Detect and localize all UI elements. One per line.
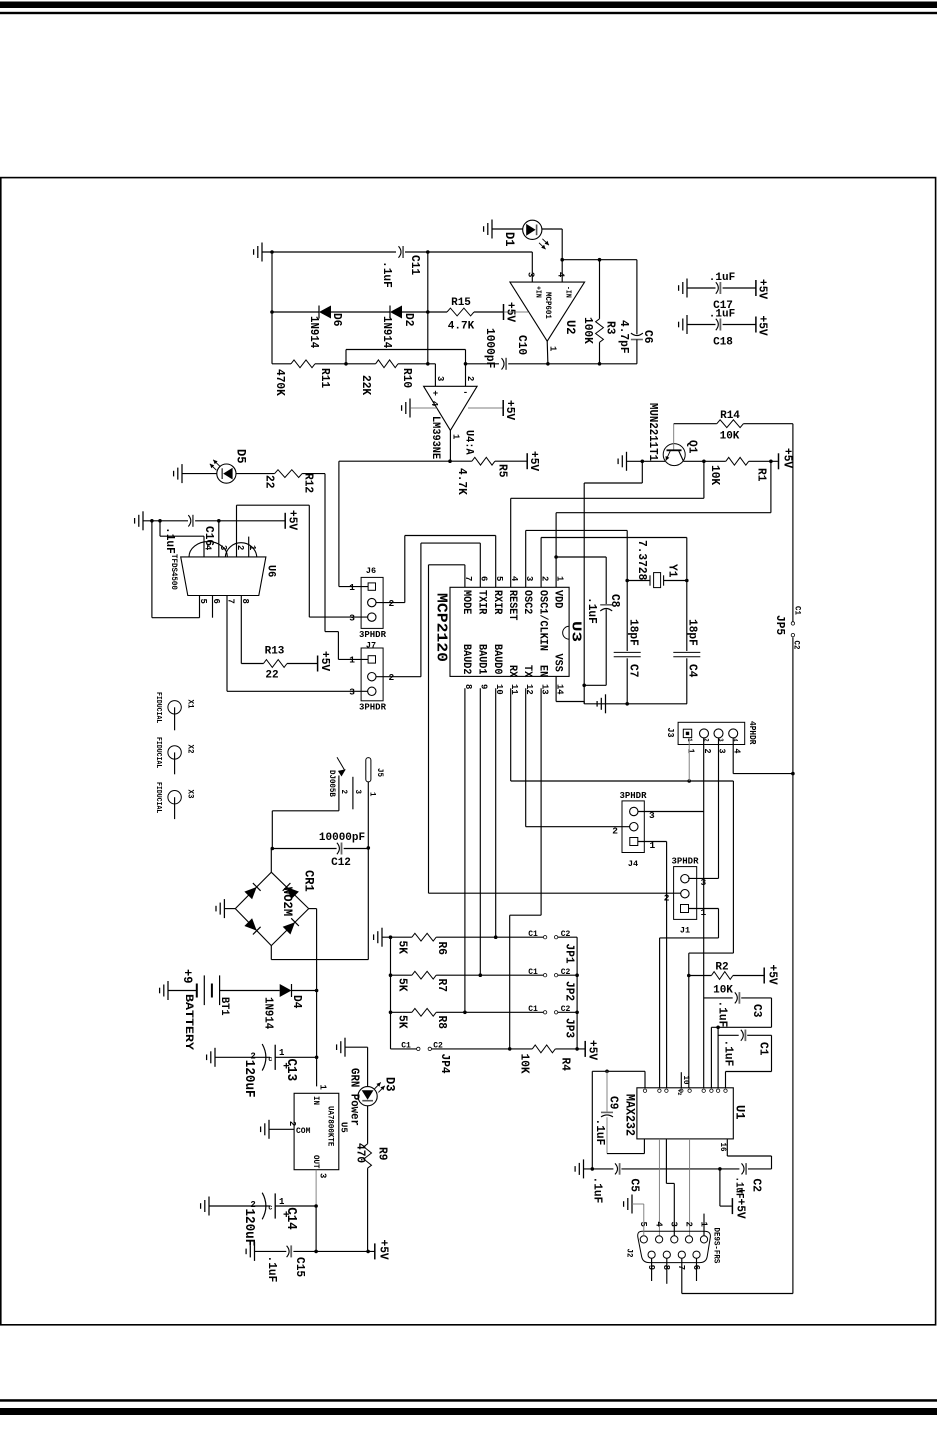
svg-text:COM: COM (296, 1127, 311, 1136)
svg-text:C1: C1 (528, 930, 538, 939)
wire -IN rail (562, 259, 637, 261)
svg-text:4PHDR: 4PHDR (747, 721, 757, 745)
svg-text:C10: C10 (515, 335, 529, 355)
svg-text:TXIR: TXIR (476, 590, 488, 615)
svg-text:R15: R15 (451, 297, 471, 309)
capacitor C17 .1uF (687, 287, 716, 289)
capacitor C10 1000pF (502, 358, 505, 369)
capacitor C5 .1uF (615, 1163, 618, 1174)
ground (crystal/VSS) (605, 694, 607, 713)
wire J1 pin1 to U1 (688, 908, 718, 910)
svg-text:R2: R2 (715, 962, 728, 974)
ground (BT1) (167, 981, 169, 1000)
svg-text:R4: R4 (559, 1058, 573, 1071)
svg-text:R10: R10 (400, 368, 414, 388)
svg-text:Y1: Y1 (666, 564, 680, 577)
svg-text:2: 2 (339, 790, 348, 795)
svg-text:U1: U1 (733, 1105, 748, 1120)
wire R11-R10 (315, 363, 376, 365)
svg-text:18pF: 18pF (627, 619, 641, 646)
J2 pin8 stub (666, 1258, 668, 1284)
fiducial X3 (168, 791, 181, 804)
svg-text:JP3: JP3 (563, 1018, 577, 1038)
wire MODE net to J1 pin2 (464, 565, 466, 588)
ground (R6 row) (381, 928, 383, 947)
svg-text:-: - (463, 388, 468, 398)
svg-text:22: 22 (263, 475, 277, 488)
svg-text:3PHDR: 3PHDR (619, 791, 647, 801)
svg-text:1: 1 (279, 1048, 285, 1058)
svg-text:10K: 10K (708, 465, 722, 486)
wire to J6 pin1 (338, 461, 340, 586)
svg-text:c: c (268, 1205, 272, 1213)
svg-text:VDD: VDD (551, 590, 563, 609)
ground (C17) (686, 279, 688, 298)
svg-text:3: 3 (524, 576, 535, 582)
wire R12 to J7 pin1 (302, 473, 325, 475)
svg-text:CR1: CR1 (302, 870, 317, 892)
svg-text:MUN2211T1: MUN2211T1 (646, 403, 659, 461)
resistor R15 4.7K (447, 308, 474, 316)
wire U6 pin6 stub (212, 596, 214, 618)
svg-text:1: 1 (349, 582, 355, 593)
svg-text:FIDUCIAL: FIDUCIAL (154, 692, 162, 723)
IC U3 MCP2120 (450, 587, 569, 676)
svg-text:J5: J5 (375, 768, 384, 777)
svg-text:22K: 22K (359, 375, 373, 396)
svg-text:DE9S-FRS: DE9S-FRS (712, 1228, 721, 1264)
svg-text:D4: D4 (290, 995, 304, 1008)
wire U2 output (546, 341, 549, 364)
CR1 diode top-left (244, 887, 256, 899)
svg-text:+5V: +5V (504, 302, 518, 323)
svg-text:1: 1 (686, 738, 693, 742)
wire BAUD0 net (495, 688, 497, 937)
+5V (C17) (755, 280, 757, 296)
LED D5 (217, 464, 236, 483)
svg-text:BAUD1: BAUD1 (476, 644, 488, 675)
wire J3 pin2 down to U1 (703, 738, 705, 1088)
svg-text:+5V: +5V (286, 510, 300, 531)
resistor R8 5K (391, 1011, 412, 1013)
wire U1 to J2 pin4 (658, 1139, 660, 1236)
wire U6 pin1 stub (248, 537, 250, 557)
capacitor C1 .1uF (717, 1027, 719, 1088)
svg-text:120uF: 120uF (241, 1209, 256, 1247)
svg-text:10K: 10K (713, 985, 733, 997)
svg-text:BAUD0: BAUD0 (491, 644, 503, 675)
ground (U5 COM) (268, 1120, 270, 1139)
svg-text:1N914: 1N914 (307, 316, 320, 348)
wire BT1 to D4 (220, 990, 280, 992)
fiducial X2 (168, 746, 181, 759)
svg-text:14: 14 (554, 684, 565, 695)
wire gnd to C14 (209, 1205, 270, 1207)
ground (CR1 left) (224, 908, 235, 910)
svg-text:c: c (268, 1056, 272, 1064)
svg-text:D2: D2 (402, 313, 416, 326)
wire R14 down right side (792, 424, 794, 623)
svg-text:4: 4 (556, 272, 567, 278)
+5V (bottom rail) (374, 1243, 376, 1259)
wire C5 row (584, 1168, 614, 1170)
connector J5 DJ005B barrel jack (366, 758, 371, 782)
svg-text:FIDUCIAL: FIDUCIAL (154, 782, 162, 813)
svg-text:C2: C2 (750, 1179, 764, 1192)
capacitor C12 10000pF (272, 848, 336, 850)
svg-text:R9: R9 (376, 1147, 390, 1160)
battery BT1 +9 (196, 984, 198, 998)
LED D3 GRN Power (358, 1087, 377, 1106)
ground (C14) (208, 1197, 210, 1216)
svg-text:4: 4 (509, 576, 520, 582)
svg-text:470K: 470K (273, 369, 287, 397)
wire gnd to C13 (215, 1056, 270, 1058)
svg-text:U6: U6 (265, 565, 277, 577)
svg-text:.1uF: .1uF (380, 261, 394, 288)
wire gnd to D3 (345, 1046, 368, 1048)
capacitor C11 (399, 246, 402, 257)
wire C14 node down (315, 1206, 317, 1251)
resistor R3 100K (599, 260, 601, 319)
+5V (R4) (584, 1041, 586, 1057)
ground (D3) (344, 1038, 346, 1057)
jumper JP1 (543, 936, 546, 939)
svg-text:-IN: -IN (564, 286, 572, 298)
svg-text:1: 1 (349, 655, 355, 666)
wire J1 pin3 from J3 pin3 (688, 877, 718, 879)
capacitor C16 .1uF (143, 520, 188, 522)
capacitor C14 120uF polarized (262, 1193, 266, 1220)
wire U6 pin4 from gnd (159, 521, 161, 536)
svg-text:UA7800KTE: UA7800KTE (326, 1106, 335, 1146)
svg-text:R6: R6 (435, 942, 449, 955)
ground (C11 top-left) (261, 243, 263, 262)
svg-text:+5V: +5V (527, 451, 541, 472)
svg-text:3: 3 (526, 272, 537, 278)
svg-text:OSC1/CLKIN: OSC1/CLKIN (536, 590, 548, 651)
wire R11 row (272, 363, 291, 365)
page footer thick rule (0, 1408, 937, 1415)
svg-text:C1: C1 (793, 606, 802, 615)
connector J3 4PHDR (678, 722, 745, 744)
svg-text:3PHDR: 3PHDR (671, 857, 699, 867)
connector J2 DE9S-FRS (638, 1231, 711, 1262)
wire J6 pin2 to RXIR (376, 602, 405, 604)
wire R4 to +5V (555, 1048, 585, 1050)
capacitor C9 .1uF loop (644, 1071, 646, 1088)
svg-text:1: 1 (279, 1197, 285, 1207)
svg-text:R5: R5 (496, 464, 510, 477)
wire U5 pin3 OUT (315, 1170, 317, 1206)
svg-text:C3: C3 (750, 1004, 764, 1017)
svg-text:C14: C14 (283, 1207, 298, 1230)
svg-text:+: + (433, 389, 438, 399)
+5V (C16/U6) (284, 513, 286, 529)
page header thick rule (0, 2, 937, 9)
svg-text:R14: R14 (720, 410, 740, 422)
wire VSS pin14 (555, 676, 557, 701)
bridge rectifier CR1 WO2M (235, 872, 271, 908)
svg-text:22: 22 (265, 670, 278, 682)
svg-text:IN: IN (311, 1096, 320, 1105)
svg-text:5K: 5K (396, 941, 410, 955)
+5V (R1) (778, 453, 780, 469)
svg-text:C1: C1 (528, 968, 538, 977)
svg-text:MCP2120: MCP2120 (433, 593, 450, 662)
capacitor C2 .1uF (742, 1163, 745, 1174)
svg-text:18pF: 18pF (686, 619, 700, 646)
svg-text:C6: C6 (641, 330, 655, 343)
svg-text:1000pF: 1000pF (483, 328, 497, 368)
svg-text:5K: 5K (396, 978, 410, 992)
wire ground trunk from Q1 (641, 461, 643, 483)
wire R2 to +5V (733, 975, 764, 977)
ground (C18) (686, 315, 688, 334)
svg-text:10K: 10K (720, 431, 740, 443)
svg-text:C9: C9 (607, 1096, 621, 1109)
svg-text:J7: J7 (366, 640, 376, 650)
resistor R10 22K (376, 360, 398, 368)
svg-text:MAX232: MAX232 (623, 1094, 637, 1136)
IC U6 TFDS4500 (181, 557, 266, 596)
wire mid vertical D2 node (427, 252, 429, 364)
page header thin rule (0, 12, 937, 14)
wire J5 pin2 down-left (338, 776, 340, 811)
svg-text:1: 1 (317, 1085, 328, 1091)
capacitor C6 4.7pF (636, 260, 638, 335)
svg-text:4.7pF: 4.7pF (617, 320, 631, 354)
capacitor C7 18pF (626, 581, 628, 652)
svg-text:+5V: +5V (586, 1040, 600, 1061)
svg-text:D5: D5 (234, 449, 249, 464)
resistor R4 10K (532, 1045, 555, 1053)
svg-text:U2: U2 (563, 320, 578, 335)
wire J5 pin1 bottom to CR1 (271, 959, 368, 961)
resistor R7 5K (391, 974, 412, 976)
svg-text:D6: D6 (330, 313, 344, 326)
svg-text:JP5: JP5 (773, 615, 787, 635)
svg-text:3: 3 (317, 1173, 328, 1179)
resistor R2 10K (689, 975, 712, 977)
+5V (U1 VCC) (731, 1198, 733, 1214)
svg-text:TX: TX (521, 665, 533, 678)
svg-text:C4: C4 (686, 664, 700, 677)
capacitor C4 18pF (686, 581, 688, 652)
wire C10 row (466, 363, 500, 365)
op-amp U2 MCP601 (510, 282, 585, 341)
svg-text:+: + (739, 1187, 746, 1199)
J2 pin1 stub (703, 1214, 705, 1236)
svg-text:.1uF: .1uF (585, 597, 599, 624)
svg-text:RX: RX (506, 665, 518, 678)
svg-text:Q1: Q1 (686, 440, 700, 453)
svg-text:+5V: +5V (756, 279, 770, 300)
svg-text:3: 3 (349, 613, 355, 624)
wire U6 pin3 from C16 row (218, 521, 220, 557)
wire CR1 top (270, 849, 272, 873)
svg-text:VSS: VSS (551, 654, 563, 673)
J2 pin9 stub (651, 1258, 653, 1281)
+5V (R5) (526, 453, 528, 469)
svg-text:100K: 100K (581, 317, 595, 345)
svg-text:C7: C7 (627, 664, 641, 677)
wire U4:A output (449, 430, 451, 461)
wire J4 pin3 to J3 pin2 net (638, 811, 704, 813)
svg-text:GRN Power: GRN Power (348, 1068, 361, 1126)
svg-text:.1uF: .1uF (716, 1001, 730, 1028)
svg-text:3: 3 (669, 1222, 680, 1228)
svg-text:OSC2: OSC2 (521, 590, 533, 614)
wire J7 pin3 from U6 pin7 (227, 690, 368, 692)
wire U2 pin4 (561, 260, 563, 282)
svg-text:U4:A: U4:A (463, 430, 475, 455)
svg-text:1: 1 (554, 576, 565, 582)
svg-text:2: 2 (683, 1222, 694, 1228)
connector J6 3PHDR (361, 577, 383, 628)
resistor R1 10K (726, 457, 749, 465)
svg-text:5K: 5K (396, 1015, 410, 1029)
wire U6 pin5 to gnd trunk (151, 521, 153, 618)
svg-text:X3: X3 (186, 790, 195, 799)
wire VSS ground row (584, 703, 687, 705)
svg-text:.1uF: .1uF (709, 309, 735, 321)
resistor R5 4.7K (472, 457, 495, 465)
capacitor C8 .1uF (556, 556, 606, 558)
svg-text:BT1: BT1 (218, 997, 230, 1016)
svg-text:MCP601: MCP601 (543, 292, 552, 319)
svg-text:3: 3 (218, 545, 229, 551)
capacitor C18 .1uF (687, 324, 716, 326)
wire left vertical (271, 252, 273, 364)
svg-text:2: 2 (539, 576, 550, 582)
resistor R9 470 (364, 1144, 372, 1168)
svg-text:OUT: OUT (311, 1155, 320, 1169)
resistor R14 10K (674, 423, 717, 425)
svg-text:C1: C1 (757, 1042, 771, 1055)
U1 pin10 stub (680, 1072, 682, 1088)
svg-text:R13: R13 (265, 646, 285, 658)
wire D1 to -IN rail (542, 228, 562, 230)
svg-text:+9: +9 (180, 969, 195, 984)
wire +5V from C5 row (719, 1169, 721, 1206)
ground (U4:A pin4) (409, 399, 411, 418)
capacitor C13 120uF polarized (262, 1044, 266, 1071)
wire C11 to U2 pin3 (405, 251, 532, 253)
jumper JP5 (791, 622, 794, 625)
wire gnd to BT1 (168, 990, 197, 992)
CR1 diode top-right (287, 887, 299, 899)
wire D6/D2 row (272, 311, 319, 313)
svg-text:DJ005B: DJ005B (327, 770, 336, 797)
wire U1 to J2 pin3 (665, 1139, 667, 1184)
svg-text:7.3728: 7.3728 (635, 540, 649, 580)
wire R1 to +5V (749, 460, 778, 462)
svg-text:.1uF: .1uF (593, 1119, 607, 1146)
wire J2 pin7 to right rail (681, 1258, 683, 1293)
svg-text:T2: T2 (676, 1089, 683, 1095)
capacitor C3 .1uF (704, 997, 733, 999)
wire left trunk to JP4 (390, 937, 392, 1049)
svg-text:U3: U3 (567, 621, 583, 642)
svg-text:3: 3 (353, 790, 362, 795)
svg-text:R11: R11 (318, 368, 332, 388)
jumper JP4 (417, 1047, 420, 1050)
capacitor C15 .1uF (255, 1250, 287, 1252)
wire BAUD2 net (464, 688, 466, 1012)
svg-text:C18: C18 (713, 337, 733, 349)
wire gnd to U5 pin2 (269, 1128, 294, 1130)
diode D2 (390, 306, 402, 319)
svg-text:+5V: +5V (766, 965, 780, 986)
jumper JP2 (543, 974, 546, 977)
svg-text:4.7K: 4.7K (455, 468, 469, 496)
+5V (R15/U2) (503, 304, 505, 320)
svg-text:R8: R8 (435, 1016, 449, 1029)
ground (Q1 emitter) (626, 452, 628, 471)
svg-text:2: 2 (465, 376, 476, 382)
wire VDD net (555, 513, 557, 588)
svg-text:MODE: MODE (460, 590, 472, 615)
wire OSC1 net (540, 538, 542, 588)
wire output row R5 (339, 460, 472, 462)
wire R5 to +5V (495, 460, 527, 462)
connector J7 3PHDR (361, 648, 383, 701)
svg-text:+IN: +IN (534, 286, 542, 298)
wire JP1 to +5V trunk (558, 936, 577, 938)
wire gnd R6 row (382, 936, 412, 938)
ground (C5 row) (583, 1159, 585, 1178)
svg-text:C8: C8 (608, 594, 622, 607)
svg-text:X1: X1 (186, 700, 195, 709)
resistor R11 470K (291, 360, 315, 368)
svg-text:+5V: +5V (756, 316, 770, 337)
wire R13 to +5V (287, 663, 318, 665)
svg-text:4: 4 (654, 1222, 665, 1228)
+5V (R13) (317, 656, 319, 672)
svg-text:RESET: RESET (506, 590, 518, 621)
svg-text:C13: C13 (283, 1059, 298, 1082)
ground (C15) (254, 1242, 256, 1261)
wire D4 to node (292, 990, 317, 992)
IC U1 MAX232 (637, 1088, 733, 1139)
svg-text:.1uF: .1uF (163, 527, 177, 554)
svg-text:2: 2 (287, 1121, 298, 1127)
wire U1 to J2 pin2 (689, 1139, 691, 1236)
wire D3 to R9 (367, 1106, 369, 1144)
svg-text:C1: C1 (528, 1005, 538, 1014)
wire R10 to pin3 corner (398, 363, 435, 365)
svg-text:WO2M: WO2M (280, 887, 295, 916)
svg-text:3PHDR: 3PHDR (359, 703, 387, 713)
wire JP4 to R4 (432, 1048, 533, 1050)
svg-text:JP2: JP2 (563, 981, 577, 1001)
wire J3 pin1 to RX (688, 738, 690, 781)
page footer thin rule (0, 1399, 937, 1402)
fiducial X1 (168, 701, 181, 714)
crystal Y1 7.3728 (627, 580, 650, 582)
svg-text:.1uF: .1uF (265, 1256, 279, 1283)
svg-text:.1uF: .1uF (722, 1040, 736, 1067)
wire U6 pin8 to R13 (240, 596, 242, 664)
jumper JP3 (543, 1011, 546, 1014)
wire J5 pin1 down (367, 782, 369, 960)
svg-text:2: 2 (389, 598, 395, 609)
wire TX net to J4 pin2 (525, 688, 527, 826)
svg-text:D3: D3 (383, 1077, 398, 1092)
svg-text:470: 470 (354, 1143, 368, 1163)
wire EN net to R4/JP4 (540, 688, 542, 915)
